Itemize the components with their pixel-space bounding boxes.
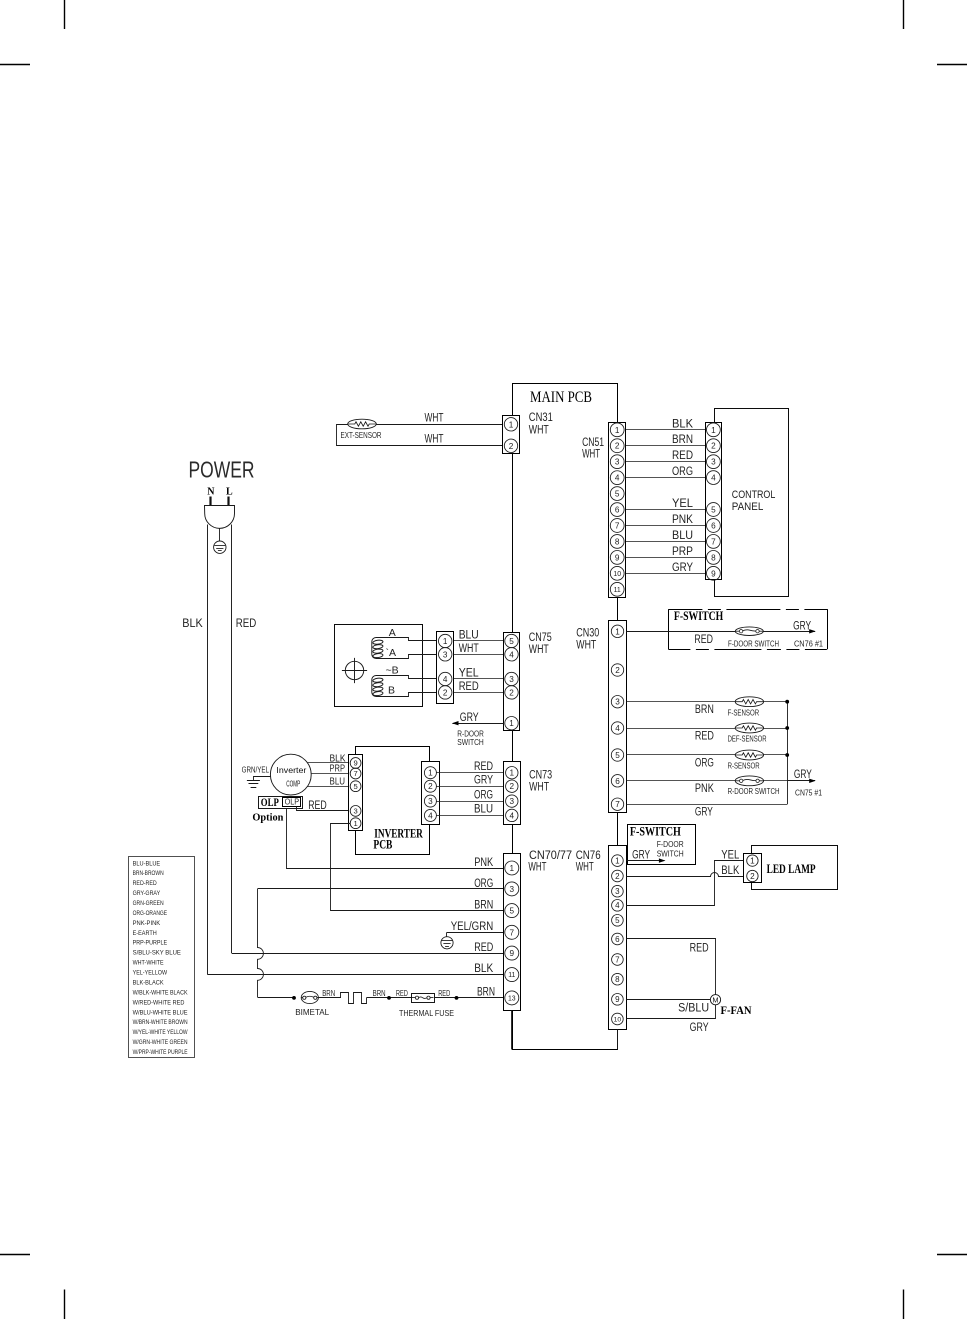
svg-text:4: 4: [615, 474, 620, 483]
wire GRY inverter to CN73: [436, 786, 505, 788]
CN-COMP pin 1: [439, 634, 452, 647]
svg-text:R-DOOR SWITCH: R-DOOR SWITCH: [728, 786, 780, 796]
connector CN-INV-L: [349, 755, 363, 831]
winding coil B (lower): [372, 676, 383, 697]
svg-text:3: 3: [510, 885, 515, 894]
CN76 pin 7: [612, 954, 624, 966]
svg-text:4: 4: [510, 811, 515, 820]
sensor R-SENSOR: [735, 750, 763, 760]
svg-text:W/BRN-WHITE BROWN: W/BRN-WHITE BROWN: [133, 1019, 188, 1026]
door switch F-DOOR SWITCH: [735, 627, 763, 636]
svg-text:1: 1: [510, 769, 515, 778]
svg-text:S/BLU: S/BLU: [678, 1002, 709, 1014]
svg-text:YEL: YEL: [459, 668, 480, 680]
svg-text:7: 7: [615, 955, 620, 964]
svg-text:BLK: BLK: [474, 963, 493, 975]
svg-text:1: 1: [615, 627, 620, 636]
svg-text:6: 6: [615, 935, 620, 944]
svg-text:WHT: WHT: [529, 424, 549, 436]
svg-text:E-EARTH: E-EARTH: [133, 930, 157, 937]
CN75 pin 1: [505, 717, 518, 730]
motor symbol circle with cross: [342, 658, 367, 683]
wire BLU CN51 to control panel: [626, 541, 707, 543]
svg-text:SWITCH: SWITCH: [657, 848, 684, 858]
svg-text:BLK: BLK: [672, 418, 693, 430]
svg-text:1: 1: [750, 857, 755, 866]
svg-text:GRY: GRY: [474, 774, 493, 786]
svg-text:WHT: WHT: [528, 861, 546, 873]
junction dot bimetal left: [292, 996, 296, 1000]
svg-text:RED: RED: [438, 988, 450, 998]
svg-text:1: 1: [428, 769, 433, 778]
wire BLU compressor connector to CN75: [454, 640, 504, 642]
svg-text:PNK-PINK: PNK-PINK: [133, 920, 161, 927]
svg-text:3: 3: [615, 887, 620, 896]
sensor F-SENSOR: [735, 697, 763, 707]
svg-text:WHT: WHT: [425, 433, 444, 445]
CN-PANEL pin 2: [707, 439, 721, 453]
svg-text:RED: RED: [459, 681, 479, 693]
CN-INV-R pin 1: [424, 767, 436, 779]
svg-text:8: 8: [615, 975, 620, 984]
wire RED from plug L down to CN70/77 pin9: [232, 525, 504, 954]
connector CN70/77: [504, 854, 521, 1011]
svg-text:PRP: PRP: [672, 546, 693, 558]
svg-text:Inverter: Inverter: [276, 766, 306, 775]
CN30 pin 2: [611, 664, 623, 676]
INVERTER PCB board outline U-INV: [356, 747, 430, 855]
wire RED compressor connector to CN75: [454, 692, 504, 694]
svg-text:BRN: BRN: [672, 434, 693, 446]
sensor DEF-SENSOR: [735, 723, 763, 733]
svg-text:BLK: BLK: [182, 618, 203, 630]
wire BRN defrost row to CN70/77 pin13: [258, 997, 294, 999]
svg-text:9: 9: [510, 949, 515, 958]
wire PNK CN30 to R-DOOR SWITCH: [626, 780, 787, 782]
svg-text:RED: RED: [694, 634, 713, 646]
fan motor F-FAN M: [710, 995, 720, 1005]
svg-text:CN51: CN51: [582, 437, 604, 449]
CN-INV-L pin 3: [350, 806, 361, 817]
connector CN31: [503, 416, 520, 454]
svg-text:4: 4: [443, 675, 448, 684]
svg-text:5: 5: [509, 637, 514, 646]
svg-text:PRP-PURPLE: PRP-PURPLE: [133, 940, 168, 947]
svg-text:EXT-SENSOR: EXT-SENSOR: [341, 430, 382, 440]
wire GRY CN76 pin10 to F-FAN: [627, 1005, 716, 1019]
svg-text:6: 6: [711, 521, 716, 530]
overload protector OLP (Option) box: [259, 797, 303, 809]
svg-text:F-SWITCH: F-SWITCH: [674, 609, 724, 623]
svg-text:2: 2: [615, 442, 620, 451]
svg-text:CN76 #1: CN76 #1: [794, 639, 823, 649]
svg-text:BLU: BLU: [459, 630, 479, 642]
svg-text:SWITCH: SWITCH: [457, 737, 484, 747]
connector CN-PANEL: [706, 423, 722, 580]
svg-text:CN76: CN76: [576, 850, 601, 862]
svg-text:BRN: BRN: [474, 899, 493, 911]
svg-text:9: 9: [615, 553, 620, 562]
svg-text:1: 1: [353, 819, 357, 828]
svg-text:RED: RED: [474, 761, 493, 773]
connector CN75: [504, 633, 520, 731]
wire S/BLU CN76 pin9 to F-FAN: [627, 999, 711, 1001]
CN-PANEL pin 8: [707, 551, 721, 565]
CN-PANEL pin 9: [707, 566, 721, 580]
svg-text:4: 4: [509, 650, 514, 659]
svg-text:LED LAMP: LED LAMP: [767, 861, 816, 876]
svg-text:10: 10: [613, 571, 621, 578]
CN-LED pin 1: [747, 855, 758, 866]
svg-text:ORG: ORG: [695, 757, 714, 769]
svg-text:3: 3: [443, 650, 448, 659]
wire YEL/GRN CN70/77 pin7 to earth: [447, 932, 504, 934]
svg-text:N: N: [207, 487, 215, 498]
wire BLU Inverter COMP to inverter pin5: [308, 786, 351, 788]
CN30 pin 7: [611, 798, 623, 810]
svg-text:B: B: [388, 684, 395, 696]
CN51 pin 5: [610, 487, 624, 501]
CN-COMP pin 4: [439, 672, 452, 685]
wire color legend box: [129, 857, 195, 1058]
svg-text:PCB: PCB: [373, 837, 392, 852]
CN-PANEL pin 1: [707, 423, 721, 437]
CN73 pin 1: [506, 767, 518, 779]
svg-text:11: 11: [508, 972, 515, 979]
svg-text:YEL: YEL: [672, 498, 694, 510]
junction dot R-SENSOR: [785, 753, 789, 757]
CN73 pin 2: [506, 780, 518, 792]
svg-text:11: 11: [614, 587, 621, 594]
thermal fuse THERMAL FUSE: [412, 994, 435, 1003]
CN73 pin 4: [506, 809, 518, 821]
LED LAMP box DS1: [752, 846, 838, 890]
CN70/77 pin 3: [505, 882, 519, 896]
svg-text:3: 3: [615, 698, 620, 707]
wire BLU inverter to CN73: [436, 815, 505, 817]
svg-text:10: 10: [614, 1016, 622, 1023]
svg-text:3: 3: [711, 458, 716, 467]
wire BLK from plug N down to CN70/77 pin11: [208, 525, 504, 975]
svg-text:7: 7: [353, 769, 357, 778]
svg-text:2: 2: [428, 782, 433, 791]
svg-text:2: 2: [615, 666, 620, 675]
CN70/77 pin 1: [505, 861, 519, 875]
svg-text:9: 9: [615, 995, 620, 1004]
CN76 pin 10: [612, 1013, 624, 1025]
wire BRN inverter pin1 to CN70/77 pin5: [331, 824, 504, 911]
svg-text:6: 6: [615, 777, 620, 786]
svg-text:W/PRP-WHITE PURPLE: W/PRP-WHITE PURPLE: [133, 1049, 188, 1056]
junction dot DEF-SENSOR: [785, 726, 789, 730]
connector CN76: [609, 846, 627, 1030]
CN-INV-L pin 7: [350, 768, 361, 779]
svg-text:4: 4: [615, 901, 620, 910]
svg-text:~B: ~B: [386, 664, 399, 676]
svg-text:BRN: BRN: [477, 986, 495, 998]
svg-text:5: 5: [615, 751, 620, 760]
junction dot heater-fuse: [387, 996, 391, 1000]
svg-text:`A: `A: [386, 647, 397, 659]
compressor Inverter COMP motor: [270, 754, 311, 795]
CN-PANEL pin 4: [707, 471, 721, 485]
ground symbol (chassis): [247, 781, 260, 788]
CN-COMP pin 2: [439, 686, 452, 699]
CN30 pin 1: [611, 625, 623, 637]
svg-text:BLU: BLU: [330, 776, 346, 787]
svg-text:M: M: [712, 996, 718, 1005]
wire BRN CN30 to F-SENSOR: [626, 701, 787, 703]
CN70/77 pin 13: [505, 991, 519, 1005]
svg-text:7: 7: [615, 800, 620, 809]
svg-text:5: 5: [615, 916, 620, 925]
svg-text:PANEL: PANEL: [732, 501, 764, 513]
earth symbol E on YEL/GRN: [441, 932, 453, 949]
CN31 pin 1: [504, 418, 517, 431]
wire ORG CN51 to control panel: [626, 477, 707, 479]
wire BLK CN76 pin2 to LED LAMP pin2 (hop): [627, 873, 747, 877]
wire RED CN51 to control panel: [626, 461, 707, 463]
svg-text:2: 2: [750, 872, 755, 881]
CN70/77 pin 9: [505, 946, 519, 960]
wire GRY CN76 pin1 arrow to F-DOOR SWITCH: [627, 860, 665, 862]
svg-text:GRN/YEL: GRN/YEL: [242, 764, 270, 774]
svg-text:2: 2: [510, 782, 515, 791]
door switch R-DOOR SWITCH: [735, 776, 763, 786]
plug earth terminal E: [214, 528, 226, 553]
CN30 pin 5: [611, 749, 623, 761]
svg-text:F-FAN: F-FAN: [721, 1005, 753, 1017]
connector CN-INV-R: [422, 762, 440, 825]
legend text: [133, 860, 189, 1056]
svg-text:3: 3: [353, 807, 357, 816]
CN51 pin 2: [610, 439, 624, 453]
wire RED OLP to inverter pin3: [297, 807, 351, 811]
svg-text:YEL/GRN: YEL/GRN: [451, 921, 494, 933]
wire segment fuse to pin13: [434, 997, 504, 999]
CN-PANEL pin 3: [707, 455, 721, 469]
svg-text:7: 7: [510, 928, 515, 937]
svg-text:1: 1: [509, 719, 514, 728]
svg-text:1: 1: [443, 637, 448, 646]
svg-text:CONTROL: CONTROL: [732, 489, 776, 501]
svg-text:GRN-GREEN: GRN-GREEN: [133, 900, 164, 907]
wire WHT compressor connector to CN75: [454, 654, 504, 656]
svg-text:F-SWITCH: F-SWITCH: [630, 825, 681, 839]
svg-text:RED: RED: [236, 618, 256, 630]
wire WHT EXT-SENSOR to CN31 pin1: [376, 424, 504, 426]
CN70/77 pin 11: [505, 968, 519, 982]
svg-text:RED: RED: [474, 942, 493, 954]
svg-text:F-DOOR SWITCH: F-DOOR SWITCH: [728, 639, 779, 649]
svg-text:WHT: WHT: [529, 644, 549, 656]
svg-text:8: 8: [615, 537, 620, 546]
wire ORG CN70/77 pin3 to defrost circuit (with hops): [258, 889, 504, 998]
wire PNK CN51 to control panel: [626, 525, 707, 527]
CN51 pin 9: [610, 551, 624, 565]
CN-INV-R pin 3: [424, 795, 436, 807]
wire GRY arrow to CN75 #1: [787, 780, 815, 782]
svg-text:BIMETAL: BIMETAL: [295, 1007, 329, 1017]
svg-text:S/BLU-SKY BLUE: S/BLU-SKY BLUE: [133, 950, 182, 957]
svg-text:CN30: CN30: [576, 628, 599, 640]
svg-text:GRY: GRY: [632, 850, 650, 862]
compressor motor M-COMP box: [335, 625, 423, 707]
svg-text:2: 2: [615, 872, 620, 881]
svg-text:1: 1: [615, 856, 620, 865]
winding coil A (upper): [372, 638, 383, 659]
CN51 pin 4: [610, 471, 624, 485]
svg-text:3: 3: [428, 797, 433, 806]
svg-text:WHT: WHT: [576, 639, 596, 651]
CN-INV-L pin 9: [350, 758, 361, 769]
svg-text:5: 5: [353, 782, 357, 791]
connector CN-COMP: [437, 632, 454, 704]
overload protector OLP small box: [283, 798, 301, 807]
CN51 pin 7: [610, 519, 624, 533]
svg-text:PRP: PRP: [330, 763, 346, 774]
svg-text:5: 5: [615, 490, 620, 499]
F-SWITCH enclosure box (dashed): [668, 609, 827, 649]
svg-text:PNK: PNK: [672, 514, 693, 526]
svg-text:YEL: YEL: [721, 850, 739, 862]
svg-text:RED: RED: [672, 450, 693, 462]
svg-text:3: 3: [615, 458, 620, 467]
CN76 pin 4: [612, 900, 624, 912]
svg-text:PNK: PNK: [474, 857, 493, 869]
power plug P1: [205, 497, 235, 529]
svg-text:CN31: CN31: [529, 412, 553, 424]
CN51 pin 3: [610, 455, 624, 469]
CN75 pin 4: [505, 648, 518, 661]
CN-INV-R pin 2: [424, 780, 436, 792]
svg-text:6: 6: [615, 506, 620, 515]
svg-text:GRY: GRY: [695, 806, 713, 818]
svg-text:W/YEL-WHITE YELLOW: W/YEL-WHITE YELLOW: [133, 1029, 189, 1036]
junction dot F-SENSOR: [785, 700, 789, 704]
wire ORG CN30 to R-SENSOR: [626, 754, 787, 756]
CN76 pin 1: [612, 855, 624, 867]
svg-text:RED: RED: [690, 943, 709, 955]
wire BLK Inverter COMP to inverter pin9: [308, 762, 351, 764]
svg-text:THERMAL FUSE: THERMAL FUSE: [399, 1008, 454, 1018]
svg-text:GRY: GRY: [460, 712, 479, 724]
wire BLK CN51 to control panel: [626, 429, 707, 431]
CN30 pin 4: [611, 722, 623, 734]
CONTROL PANEL box U-PANEL: [715, 409, 789, 597]
thermistor EXT-SENSOR: [348, 419, 377, 429]
wire YEL CN76 pin4 to LED LAMP pin1: [627, 861, 747, 906]
svg-text:WHT: WHT: [582, 449, 600, 461]
svg-text:2: 2: [509, 688, 514, 697]
svg-text:CN75: CN75: [529, 632, 552, 644]
wire RED CN30 to DEF-SENSOR: [626, 728, 787, 730]
svg-text:RED: RED: [308, 800, 327, 812]
svg-text:2: 2: [443, 688, 448, 697]
svg-text:ORG: ORG: [672, 466, 693, 478]
CN76 pin 5: [612, 915, 624, 927]
svg-text:4: 4: [428, 811, 433, 820]
CN-PANEL pin 7: [707, 535, 721, 549]
wire YEL CN51 to control panel: [626, 509, 707, 511]
svg-text:F-SENSOR: F-SENSOR: [728, 707, 760, 717]
CN-INV-L pin 5: [350, 781, 361, 792]
svg-text:8: 8: [711, 553, 716, 562]
F-SWITCH box (lower): [628, 825, 696, 865]
svg-text:4: 4: [711, 474, 716, 483]
svg-text:1: 1: [615, 426, 620, 435]
wire RED CN76 pin6 to F-FAN: [627, 939, 716, 995]
connector CN73: [504, 762, 521, 825]
wire ORG inverter to CN73: [436, 801, 505, 803]
CN-PANEL pin 5: [707, 503, 721, 517]
CN31 pin 2: [504, 439, 517, 452]
svg-text:2: 2: [509, 442, 514, 451]
svg-text:CN70/77: CN70/77: [529, 850, 572, 862]
svg-text:DEF-SENSOR: DEF-SENSOR: [728, 733, 767, 743]
wire GRN/YEL to chassis ground: [254, 777, 271, 781]
CN30 pin 3: [611, 696, 623, 708]
MAIN PCB board outline U-MAIN: [513, 384, 618, 1050]
svg-text:13: 13: [508, 995, 516, 1002]
svg-text:Option: Option: [252, 812, 283, 824]
wire terminal ~B to pin4: [382, 676, 439, 679]
svg-text:POWER: POWER: [189, 457, 255, 483]
wire PRP CN51 to control panel: [626, 557, 707, 559]
connector CN-LED: [744, 854, 762, 883]
wire GRY CN30 pin7 return: [626, 804, 787, 806]
svg-text:L: L: [226, 487, 233, 498]
wire GRY CN51 to control panel: [626, 573, 707, 575]
svg-text:CN73: CN73: [529, 769, 552, 781]
svg-text:GRY: GRY: [672, 562, 693, 574]
svg-text:2: 2: [711, 442, 716, 451]
defrost heater element (meander): [341, 993, 367, 1004]
svg-text:BLK: BLK: [721, 865, 739, 877]
connector CN51: [609, 423, 626, 598]
bimetal thermostat BIMETAL: [301, 991, 318, 1003]
CN70/77 pin 7: [505, 925, 519, 939]
svg-text:BRN: BRN: [373, 988, 386, 998]
svg-text:1: 1: [510, 864, 515, 873]
wire BRN CN51 to control panel: [626, 445, 707, 447]
wire YEL compressor connector to CN75: [454, 678, 504, 680]
svg-text:COMP: COMP: [286, 779, 300, 788]
CN51 pin 6: [610, 503, 624, 517]
svg-text:ORG: ORG: [474, 878, 493, 890]
svg-text:WHT: WHT: [425, 412, 444, 424]
svg-text:OLP: OLP: [261, 795, 279, 809]
CN75 pin 2: [505, 686, 518, 699]
wire terminal A to pin1: [382, 638, 439, 641]
svg-text:PNK: PNK: [695, 783, 714, 795]
svg-text:GRY: GRY: [690, 1022, 709, 1034]
CN70/77 pin 5: [505, 904, 519, 918]
svg-text:WHT: WHT: [576, 861, 594, 873]
svg-text:BRN: BRN: [695, 704, 714, 716]
svg-text:GRY: GRY: [793, 620, 811, 632]
svg-text:BLU-BLUE: BLU-BLUE: [133, 860, 161, 867]
CN73 pin 3: [506, 795, 518, 807]
svg-text:4: 4: [615, 724, 620, 733]
CN75 pin 3: [505, 672, 518, 685]
CN30 pin 6: [611, 775, 623, 787]
CN76 pin 6: [612, 933, 624, 945]
svg-text:W/BLK-WHITE BLACK: W/BLK-WHITE BLACK: [133, 989, 188, 996]
CN75 pin 5: [505, 634, 518, 647]
svg-text:WHT-WHITE: WHT-WHITE: [133, 960, 165, 967]
wire RED/GRY CN30 pin1 through F-DOOR SWITCH to CN76 #1: [626, 631, 815, 633]
